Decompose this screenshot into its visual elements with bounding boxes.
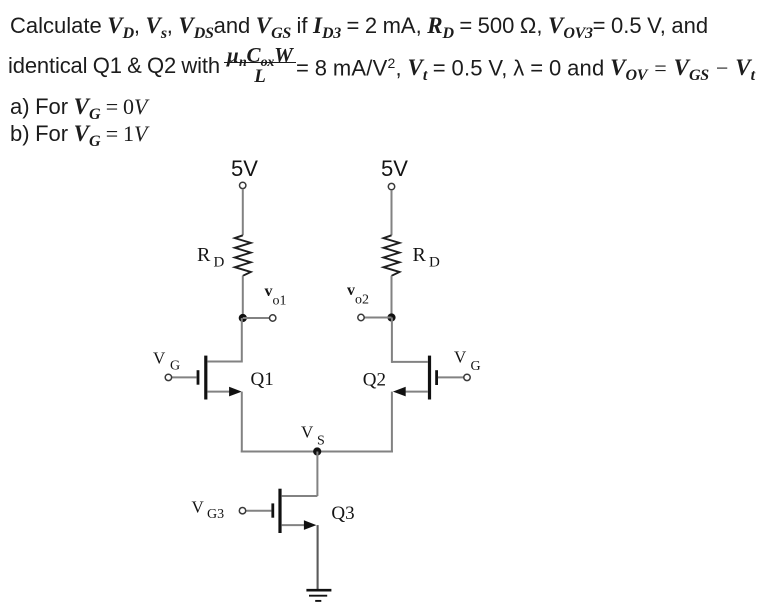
svg-text:R: R — [413, 244, 427, 266]
svg-text:G: G — [170, 359, 180, 374]
wire node vo2 to terminal vo2 — [365, 317, 392, 319]
wire Q1 source down to common — [241, 392, 243, 453]
svg-text:5V: 5V — [381, 156, 408, 181]
svg-text:D: D — [214, 255, 225, 271]
wire VDD right to RD2 — [391, 190, 393, 235]
wire VDD left to RD1 — [242, 189, 244, 235]
svg-text:o1: o1 — [273, 294, 287, 309]
svg-text:Q2: Q2 — [363, 370, 386, 391]
transistor Q3 — [273, 489, 318, 533]
label VG right — [454, 348, 481, 374]
problem text line 2 left part — [8, 55, 220, 77]
problem text line 1 — [10, 14, 708, 37]
problem text line a) — [10, 95, 147, 118]
node vo2 junction dot — [387, 313, 395, 321]
svg-text:Q1: Q1 — [251, 369, 274, 390]
wire node VS to Q3 drain — [316, 452, 318, 497]
terminal vo2 — [358, 314, 364, 320]
svg-text:o2: o2 — [355, 293, 369, 308]
svg-text:V: V — [192, 498, 205, 517]
svg-text:v: v — [347, 282, 355, 299]
terminal VG left — [165, 374, 171, 380]
svg-text:R: R — [197, 244, 211, 266]
label RD1 — [197, 244, 225, 271]
svg-text:v: v — [265, 283, 273, 300]
label vo2 — [347, 282, 369, 308]
svg-text:S: S — [317, 434, 325, 449]
problem text line 2 fraction — [224, 45, 296, 86]
svg-text:G: G — [471, 359, 481, 374]
svg-text:V: V — [454, 348, 467, 367]
svg-text:Q3: Q3 — [331, 503, 354, 524]
wire Q2 source down to common — [391, 392, 393, 453]
terminal vo1 — [270, 315, 276, 321]
ground — [306, 590, 331, 601]
node vo1 junction dot — [239, 314, 247, 322]
wire Q2 gate to terminal VG right — [438, 376, 464, 378]
transistor Q2 — [392, 356, 437, 400]
problem text line 2 right part — [296, 55, 755, 79]
problem text line b) — [10, 122, 147, 145]
label RD2 — [413, 244, 441, 271]
svg-text:V: V — [153, 349, 166, 368]
wire RD1 to node vo1 — [242, 276, 244, 318]
resistor RD2 — [384, 235, 400, 275]
wire common sources (node VS rail) — [241, 451, 393, 453]
wire node vo1 to Q1 drain — [241, 318, 243, 363]
terminal VG3 — [239, 508, 245, 514]
svg-text:V: V — [301, 423, 314, 442]
svg-text:G3: G3 — [207, 507, 224, 522]
label vo1 — [265, 283, 287, 309]
svg-text:5V: 5V — [231, 156, 258, 181]
node VS junction dot — [313, 447, 321, 455]
wire RD2 to node vo2 — [391, 276, 393, 318]
wire Q1 gate to terminal VG left — [172, 376, 197, 378]
label VG3 — [192, 498, 225, 523]
label VS — [301, 423, 325, 449]
terminal VDD right — [388, 183, 394, 189]
resistor RD1 — [235, 235, 251, 275]
wire Q3 gate to terminal VG3 — [246, 510, 272, 512]
svg-text:D: D — [429, 255, 440, 271]
terminal VG right — [464, 374, 470, 380]
transistor Q1 — [198, 356, 242, 400]
terminal VDD left — [240, 182, 246, 188]
wire node vo1 to terminal vo1 — [243, 317, 269, 319]
wire node vo2 to Q2 drain — [391, 318, 393, 363]
label VG left — [153, 349, 180, 374]
wire Q3 source to ground — [317, 525, 319, 589]
